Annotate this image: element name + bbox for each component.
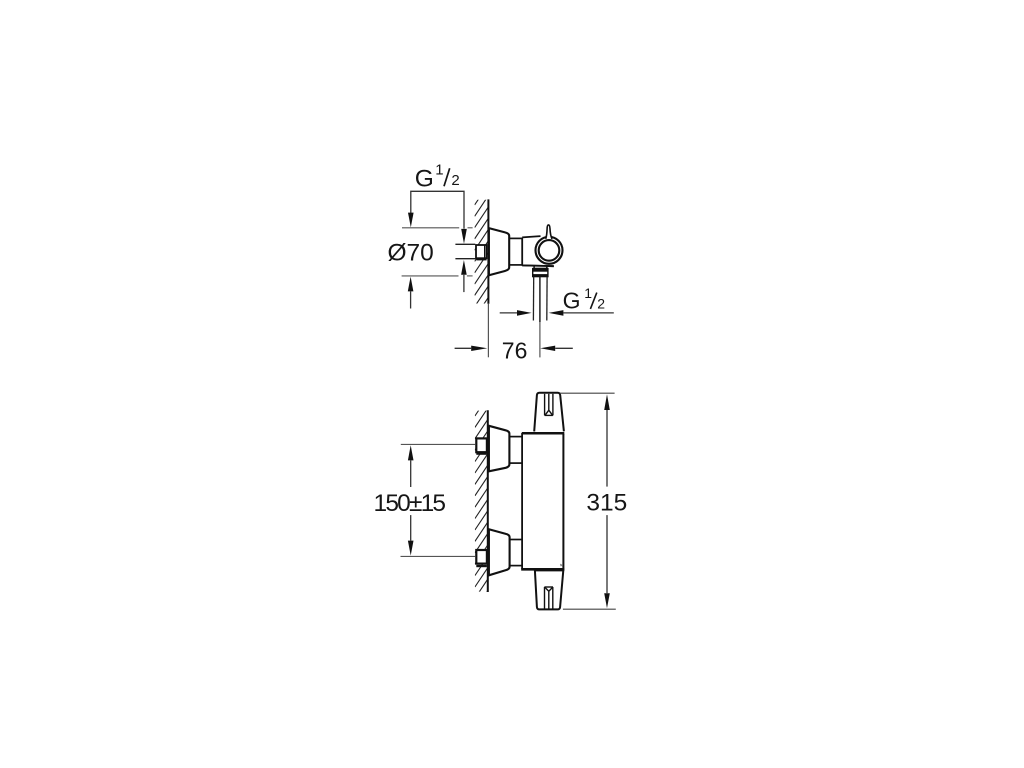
svg-text:150±15: 150±15: [374, 490, 447, 517]
svg-text:G: G: [563, 288, 581, 314]
svg-text:315: 315: [586, 489, 627, 516]
svg-text:Ø70: Ø70: [388, 239, 434, 266]
svg-text:76: 76: [502, 337, 528, 363]
svg-text:2: 2: [597, 296, 605, 312]
svg-text:G: G: [415, 166, 434, 193]
svg-text:2: 2: [451, 172, 459, 189]
svg-text:1: 1: [435, 161, 443, 178]
svg-text:1: 1: [584, 285, 592, 301]
